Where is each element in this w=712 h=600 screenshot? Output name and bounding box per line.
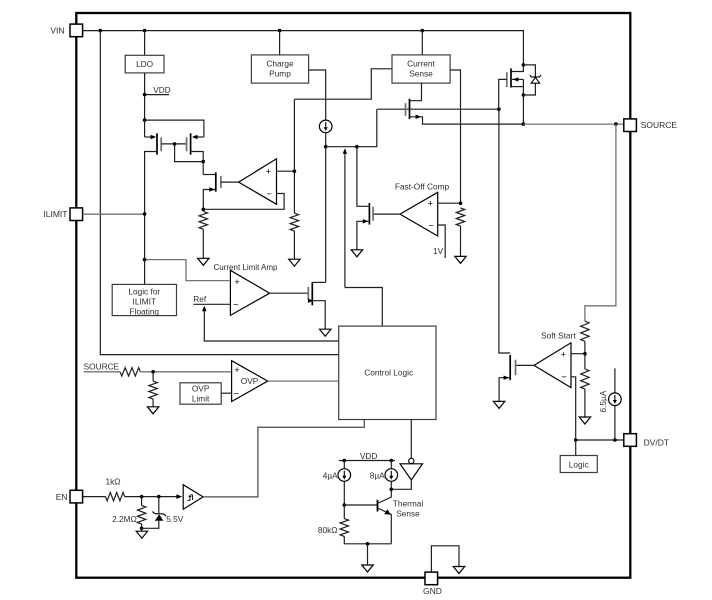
- wire divider down: [152, 372, 154, 381]
- svg-text:6.5µA: 6.5µA: [598, 390, 608, 412]
- transistor Q2 right PMOS channel bar: [190, 133, 192, 154]
- buffer U5 with hysteresis: [183, 485, 203, 510]
- svg-text:OVP: OVP: [241, 376, 259, 386]
- svg-text:80kΩ: 80kΩ: [318, 525, 338, 535]
- pin SOURCE pad: [624, 119, 637, 132]
- wire U3 output: [270, 292, 309, 294]
- svg-text:LDO: LDO: [136, 59, 154, 69]
- svg-text:Floating: Floating: [130, 306, 160, 316]
- wire I1 to ILIM node: [325, 133, 327, 147]
- svg-text:8µA: 8µA: [370, 471, 385, 481]
- svg-text:Sense: Sense: [396, 508, 420, 518]
- wire left PMOS source lead: [144, 120, 146, 137]
- wire LDO input stub: [144, 31, 146, 56]
- op-amp U2 Fast-Off Comp: [400, 192, 438, 236]
- wire M3 source lead: [203, 190, 216, 210]
- svg-text:VDD: VDD: [153, 85, 171, 95]
- diode D2 zener 5.5V: [155, 514, 164, 520]
- node SOURCE-B: [614, 122, 618, 126]
- node U3 plus tap: [143, 258, 147, 262]
- wire M6 drain from gate-line node: [499, 109, 510, 353]
- wire 8uA top: [390, 461, 392, 469]
- wire U3 plus input path grey: [145, 260, 231, 281]
- svg-text:−: −: [233, 300, 238, 310]
- inverter U6: [409, 458, 414, 463]
- wire main FET drain drop: [522, 30, 524, 65]
- svg-text:Limit: Limit: [192, 394, 210, 404]
- node DVDT-B: [613, 438, 617, 442]
- svg-text:+: +: [266, 166, 271, 176]
- pin DVDT pad: [624, 434, 637, 447]
- wire R6 to buffer: [125, 496, 177, 498]
- node thermal gnd: [366, 542, 370, 546]
- node thermal collector: [390, 488, 394, 492]
- wire R5 to ground: [152, 399, 154, 407]
- svg-text:Current: Current: [407, 58, 435, 68]
- transistor M5 sense FET channel bar: [409, 99, 411, 119]
- wire 6.5uA stub: [614, 368, 616, 393]
- wire body diode branch top: [523, 65, 535, 77]
- ground R5: [147, 407, 158, 414]
- svg-text:Logic for: Logic for: [128, 286, 160, 296]
- wire 4uA to base node: [343, 481, 345, 518]
- block Charge Pump: [251, 55, 308, 83]
- wire gate-drain tie of right PMOS: [175, 144, 204, 162]
- arrow M3 source: [209, 187, 215, 191]
- arrow M6 source: [504, 376, 510, 380]
- svg-text:2.2MΩ: 2.2MΩ: [112, 514, 137, 524]
- arrow Ref: [202, 306, 206, 312]
- arrow into ILIM node: [343, 148, 347, 154]
- ground R1: [198, 258, 209, 265]
- resistor R4 horizontal: [120, 368, 140, 376]
- wire DVDT line: [576, 439, 624, 441]
- svg-text:ILIMIT: ILIMIT: [43, 209, 67, 219]
- wire control logic top link: [345, 288, 382, 327]
- arrow M4f source: [363, 219, 369, 223]
- wire gate line to FETs: [377, 108, 499, 110]
- wire body diode branch bottom: [523, 83, 535, 95]
- wire R10 to ground: [584, 389, 586, 417]
- node VDD tap: [143, 93, 147, 97]
- wire Charge Pump output: [309, 70, 326, 120]
- svg-text:−: −: [234, 388, 239, 398]
- wire M0 source lead: [511, 86, 523, 88]
- ground thermal: [362, 565, 373, 572]
- svg-text:1kΩ: 1kΩ: [106, 476, 121, 486]
- arrow buffer input: [176, 494, 182, 499]
- svg-text:−: −: [561, 372, 566, 382]
- svg-text:Current Limit Amp: Current Limit Amp: [213, 263, 278, 272]
- current source I2 4uA: [338, 469, 351, 482]
- wire R4 to OVP plus: [140, 371, 231, 373]
- wire M4 drain lead: [312, 281, 325, 283]
- svg-text:+: +: [234, 277, 239, 287]
- wire Ref drive from Control Logic: [204, 310, 338, 341]
- node thermal base: [343, 503, 347, 507]
- svg-text:Pump: Pump: [269, 69, 291, 79]
- pin wire EN: [83, 496, 106, 498]
- transistor Q3 thermal sense base bar: [377, 500, 379, 512]
- svg-text:Fast-Off Comp: Fast-Off Comp: [395, 181, 450, 191]
- transistor M3 channel bar: [215, 172, 217, 191]
- wire ILIM vertical to M4 drain: [325, 147, 327, 283]
- svg-text:ILIMIT: ILIMIT: [133, 296, 157, 306]
- node VIN-B: [143, 29, 147, 33]
- wire R9 to plus node: [584, 341, 586, 369]
- block LDO: [125, 55, 164, 73]
- svg-text:+: +: [234, 365, 239, 375]
- wire 4uA top: [343, 461, 345, 469]
- wire VDD rail: [339, 460, 395, 462]
- wire right PMOS source lead: [198, 136, 204, 138]
- current source I1: [319, 120, 332, 133]
- wire Charge Pump input stub: [279, 31, 281, 55]
- ground GND pin: [453, 567, 464, 574]
- svg-text:DV/DT: DV/DT: [644, 438, 670, 448]
- block Logic: [560, 456, 597, 473]
- wire OVP Limit to minus: [221, 392, 231, 394]
- diode D1 body diode: [531, 77, 539, 83]
- pin GND pad: [425, 572, 438, 585]
- node EN-B: [157, 495, 161, 499]
- wire R2 vertical from gate rail: [293, 99, 295, 213]
- transistor M5 sense FET gate bar: [405, 103, 407, 116]
- svg-text:Ref: Ref: [193, 294, 207, 304]
- resistor R9 upper: [581, 321, 589, 341]
- op-amp U7 Soft Start: [534, 343, 571, 388]
- wire I4 to DVDT line: [614, 406, 616, 441]
- wire U7 minus to DVDT: [571, 377, 576, 440]
- wire U2 minus 1V reference: [438, 225, 446, 258]
- op-amp U4 OVP: [232, 361, 268, 402]
- wire M0 gate lead: [499, 79, 507, 109]
- op-amp U3 Current Limit Amp: [230, 270, 269, 315]
- node VIN-C: [278, 29, 282, 33]
- arrow M4 source: [308, 299, 314, 303]
- wire M6 source: [499, 378, 510, 402]
- transistor M4f gate bar: [372, 207, 374, 221]
- node VDD-4uA: [343, 459, 347, 463]
- ground M6: [493, 401, 504, 408]
- svg-text:Charge: Charge: [266, 58, 294, 68]
- wire mirror shared gate rail: [161, 143, 186, 145]
- transistor M0 main FET channel bar: [510, 68, 512, 87]
- wire R7 bottom: [141, 524, 143, 528]
- wire U2 plus input: [438, 202, 461, 204]
- svg-text:−: −: [428, 220, 433, 230]
- wire base line: [344, 504, 377, 506]
- svg-text:OVP: OVP: [192, 384, 210, 394]
- svg-text:EN: EN: [56, 492, 68, 502]
- svg-text:Soft Start: Soft Start: [541, 330, 576, 340]
- wire R8 bottom: [344, 536, 391, 543]
- pin VIN pad: [70, 24, 83, 37]
- wire sense FET drain: [410, 83, 422, 101]
- node U2 plus: [459, 201, 463, 205]
- ground M4: [320, 329, 331, 336]
- resistor R2: [290, 213, 298, 231]
- node mirror gate: [173, 142, 177, 146]
- node mirror top: [143, 118, 147, 122]
- wire GND staple: [431, 546, 459, 572]
- wire M3 drain lead: [203, 174, 216, 176]
- wire U1 plus input: [277, 170, 295, 172]
- svg-text:GND: GND: [423, 586, 442, 596]
- node EN-A: [140, 495, 144, 499]
- svg-text:VIN: VIN: [50, 26, 64, 36]
- wire sense FET source to SOURCE rail: [410, 117, 524, 124]
- svg-text:Thermal: Thermal: [393, 498, 424, 508]
- svg-text:−: −: [266, 189, 271, 199]
- node VIN-D: [421, 29, 425, 33]
- resistor R3: [456, 208, 464, 226]
- transistor Q2 right PMOS gate bar: [186, 137, 188, 151]
- wire zener to ground node: [142, 521, 159, 529]
- wire SOURCE rail grey: [523, 123, 623, 125]
- node M3 source / R1 top: [202, 208, 206, 212]
- svg-text:4µA: 4µA: [323, 471, 338, 481]
- wire R2 to ground: [293, 231, 295, 259]
- wire ILIMIT internal vertical: [144, 214, 146, 285]
- node soft-start plus: [583, 352, 587, 356]
- op-amp U1 (mirror amp): [239, 159, 277, 205]
- transistor M4f fast-off FET channel bar: [368, 203, 370, 225]
- ground R3: [455, 256, 466, 263]
- transistor M6 gate bar: [515, 360, 517, 376]
- wire U2 output to M4f gate: [373, 213, 400, 215]
- resistor R7 2.2M: [141, 497, 143, 506]
- transistor Q3 emitter lead: [378, 508, 392, 544]
- wire U1 minus feedback: [203, 194, 284, 210]
- arrow M5 source: [416, 115, 422, 119]
- node ILIM-B: [355, 145, 359, 149]
- node ILIM-A: [324, 145, 328, 149]
- node SOURCE-A: [522, 122, 526, 126]
- svg-text:Control Logic: Control Logic: [364, 368, 413, 378]
- resistor R8 80k: [340, 519, 348, 537]
- arrow M0 body: [513, 77, 519, 81]
- ground M4f: [351, 250, 362, 257]
- node ILIMIT tap: [143, 212, 147, 216]
- ground R2: [289, 259, 300, 266]
- wire charge-pump sense line: [294, 69, 392, 99]
- wire SOURCE to soft-start divider grey: [585, 124, 616, 321]
- block OVP Limit: [180, 383, 221, 404]
- pin EN pad: [70, 490, 83, 503]
- transistor Q1 left PMOS gate bar: [160, 137, 162, 151]
- node M0 source: [522, 93, 526, 97]
- wire right PMOS drain lead: [191, 152, 204, 175]
- transistor M4 channel bar: [311, 282, 313, 305]
- wire VIN sense to Control Logic (left vertical): [100, 31, 338, 355]
- wire M4f drain: [357, 147, 370, 207]
- svg-text:Logic: Logic: [569, 459, 589, 469]
- wire U7 output to M6 gate: [516, 364, 535, 366]
- wire zener branch: [158, 497, 160, 514]
- wire left PMOS drain lead: [145, 152, 157, 214]
- node VDD-8uA: [390, 459, 394, 463]
- wire VDD vertical (LDO output): [144, 73, 146, 120]
- resistor R1: [199, 211, 207, 229]
- svg-text:SOURCE: SOURCE: [641, 120, 678, 130]
- wire 8uA to collector: [390, 481, 392, 495]
- wire Ref line: [193, 303, 230, 305]
- node OVP divider: [151, 370, 155, 374]
- block Current Sense: [392, 55, 450, 83]
- node U1 plus: [293, 169, 297, 173]
- wire M0 body lead with arrow: [512, 78, 523, 80]
- wire Current Sense right output: [450, 70, 460, 203]
- ground R10: [579, 417, 590, 424]
- wire mirror top rail: [145, 120, 204, 137]
- svg-text:Sense: Sense: [409, 69, 433, 79]
- wire VIN rail: [83, 30, 524, 32]
- block Control Logic: [339, 326, 436, 419]
- svg-text:1V: 1V: [433, 246, 444, 256]
- wire SOURCE sense line: [84, 371, 121, 373]
- node mirror drain: [201, 160, 205, 164]
- svg-text:SOURCE: SOURCE: [84, 361, 120, 371]
- svg-text:+: +: [428, 198, 433, 208]
- wire U7 plus input: [571, 353, 585, 355]
- resistor R5: [149, 381, 157, 399]
- transistor M6 channel bar: [509, 355, 511, 380]
- ground EN divider: [141, 528, 143, 531]
- node main FET drain: [522, 63, 526, 67]
- wire buffer output to Control Logic: [203, 420, 364, 497]
- pin ILIMIT pad: [70, 208, 83, 221]
- transistor Q1 left PMOS channel bar: [156, 133, 158, 154]
- transistor M4 gate bar: [307, 287, 309, 300]
- node VIN-A: [99, 29, 103, 33]
- wire R3 to ground: [460, 226, 462, 256]
- wire R1 to ground: [202, 229, 204, 258]
- arrow right PMOS source: [192, 135, 198, 139]
- wire M3 gate lead: [221, 181, 239, 183]
- svg-text:VDD: VDD: [360, 451, 378, 461]
- node DVDT-A: [574, 438, 578, 442]
- wire M4f source: [357, 221, 370, 250]
- transistor Q3 collector lead: [378, 496, 392, 504]
- wire thermal ground stem: [367, 544, 369, 565]
- wire Current Sense input stub: [421, 31, 423, 55]
- wire M4 source lead: [312, 301, 325, 330]
- wire main FET drain stub: [511, 65, 523, 72]
- arrow Q3 emitter: [384, 509, 390, 515]
- transistor M0 main FET gate bar: [506, 72, 508, 87]
- buffer U5 hysteresis glyph: [187, 495, 192, 500]
- wire inverter output: [391, 480, 411, 489]
- svg-text:+: +: [561, 350, 566, 360]
- block Logic for ILIMIT Floating: [112, 284, 176, 315]
- resistor R6 1k: [106, 492, 125, 500]
- current source I4 6.5uA: [609, 393, 622, 406]
- svg-text:5.5V: 5.5V: [166, 514, 184, 524]
- pin wire ILIMIT grey: [83, 213, 145, 215]
- node EN-GND: [140, 527, 144, 531]
- wire OVP output: [268, 380, 339, 382]
- transistor M3 gate bar: [220, 176, 222, 188]
- wire ILIM node rail: [326, 109, 377, 147]
- node gate line: [497, 107, 501, 111]
- current source I3 8uA: [385, 469, 398, 482]
- net label VDD tick: [145, 94, 169, 96]
- wire inverter input from Control Logic: [410, 420, 412, 459]
- wire M0 source to SOURCE rail: [522, 95, 524, 124]
- wire gate pulldown from Control Logic with arrow: [344, 153, 346, 288]
- resistor R10 lower: [581, 369, 589, 389]
- wire Logic box stem: [575, 440, 577, 456]
- arrow left PMOS source: [151, 135, 157, 139]
- IC boundary box: [76, 13, 630, 578]
